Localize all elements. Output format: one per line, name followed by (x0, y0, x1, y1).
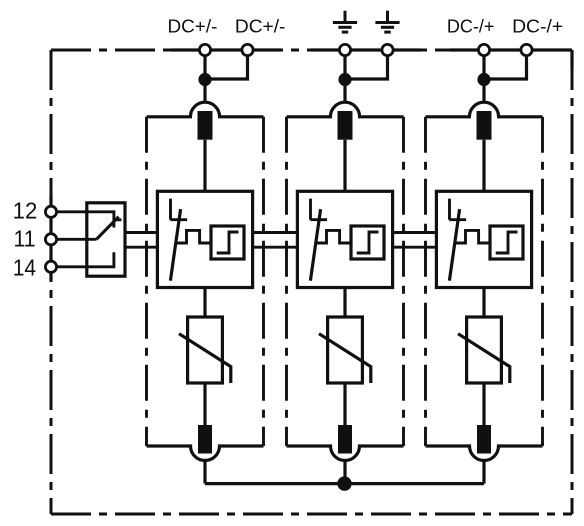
varistor MOV module 1 body (188, 317, 223, 383)
wire lower link module 1 to module 2 (253, 246, 298, 249)
wire upper link contact box to module 1 (125, 231, 157, 234)
thermal disconnector module 3 bottom (black) (477, 425, 491, 454)
wire pulse link blade to trigger box module 2 (316, 230, 351, 243)
terminal circle module 2 right (382, 44, 393, 55)
svg-text:12: 12 (13, 197, 38, 224)
wire solid top-edge segment at DC-/+ terminals (450, 48, 572, 51)
SPD monitoring box module 3 (436, 191, 531, 287)
wire module 3 drop to bottom bus (482, 461, 485, 484)
node junction dot module 1 top (198, 73, 211, 86)
wire terminal 11 to changeover blade (51, 238, 96, 241)
wire right terminal drop module 1 (205, 50, 248, 79)
wire lower link contact box to module 1 (125, 246, 157, 249)
varistor diagonal stroke module 1 (179, 334, 231, 383)
enclosure dash-dot frame top edge (51, 49, 572, 52)
hysteresis step symbol module 3 (496, 232, 518, 253)
wire bottom bus (205, 482, 484, 485)
wire module 3 top rail with arc bump (426, 102, 543, 117)
enclosure dash-dot frame bottom edge (51, 513, 572, 516)
wire upper link module 1 to module 2 (253, 231, 298, 234)
wire SPD box to varistor module 3 (482, 288, 485, 318)
wire left terminal drop module 1 (203, 50, 206, 103)
terminal circle module 1 left (199, 44, 210, 55)
module 1 right dash-dot boundary (262, 117, 265, 446)
module 2 left dash-dot boundary (285, 117, 288, 446)
wire solid top-edge segment at DC+/- terminals (171, 48, 281, 51)
svg-text:DC-/+: DC-/+ (447, 15, 495, 36)
remote signalling contact box (87, 203, 125, 276)
wire disconnector to SPD box module 2 (343, 140, 346, 192)
terminal circle module 3 right (521, 44, 532, 55)
hysteresis step symbol module 1 (217, 232, 239, 253)
wire SPD box to varistor module 1 (203, 288, 206, 318)
ground symbol 2 (375, 11, 399, 32)
switch blade module 3 (449, 209, 459, 281)
node junction dot module 3 top (477, 73, 490, 86)
svg-text:DC+/-: DC+/- (235, 17, 286, 38)
wire solid left-edge segment at terminals 12 11 14 (49, 197, 52, 281)
wire solid top-edge segment at earth terminals (311, 48, 421, 51)
wire varistor to bottom disconnector module 2 (343, 383, 346, 425)
wire left terminal drop module 2 (343, 50, 346, 103)
wire varistor to bottom disconnector module 3 (482, 383, 485, 425)
wire varistor to bottom disconnector module 1 (203, 383, 206, 425)
wire right terminal drop module 3 (484, 50, 527, 79)
wire module 1 bottom rail with arc bump (147, 446, 264, 461)
trigger box module 3 (490, 226, 523, 259)
wire right terminal drop module 2 (345, 50, 388, 79)
wire pulse link blade to trigger box module 1 (176, 230, 211, 243)
enclosure dash-dot frame right edge (571, 50, 574, 514)
thermal disconnector module 2 bottom (black) (338, 425, 352, 454)
thermal disconnector module 1 bottom (black) (198, 425, 212, 454)
node junction dot bottom bus (337, 476, 351, 490)
node junction dot module 2 top (338, 73, 351, 86)
terminal circle 11 (45, 234, 56, 245)
switch blade module 1 (170, 209, 180, 281)
wire module 2 drop to bottom bus (343, 461, 346, 484)
wire module 2 bottom rail with arc bump (287, 446, 404, 461)
wire module 3 bottom rail with arc bump (426, 446, 543, 461)
switch fixed contact module 3 (449, 199, 466, 220)
wire module 2 top rail with arc bump (287, 102, 404, 117)
wire terminal 12 to changeover contact (51, 212, 114, 228)
switch fixed contact module 2 (310, 199, 327, 220)
terminal circle 14 (45, 261, 56, 272)
wire disconnector to SPD box module 1 (203, 140, 206, 192)
SPD monitoring box module 1 (157, 191, 252, 287)
wire solid right-edge segment below top corner (570, 50, 573, 68)
wire SPD box to varistor module 2 (343, 288, 346, 318)
wire module 1 top rail with arc bump (147, 102, 264, 117)
svg-text:14: 14 (13, 255, 36, 281)
switch blade module 2 (310, 209, 320, 281)
terminal circle module 3 left (478, 44, 489, 55)
wire module 1 drop to bottom bus (203, 461, 206, 484)
thermal disconnector module 2 top (black) (338, 111, 353, 140)
wire pulse link blade to trigger box module 3 (455, 230, 490, 243)
varistor MOV module 2 body (328, 317, 363, 383)
wire upper link module 2 to module 3 (393, 231, 437, 234)
svg-text:DC-/+: DC-/+ (512, 17, 563, 38)
module 3 left dash-dot boundary (424, 117, 427, 446)
changeover switch blade (96, 217, 118, 240)
wire disconnector to SPD box module 3 (482, 140, 485, 192)
thermal disconnector module 1 top (black) (198, 111, 213, 140)
terminal circle 12 (45, 206, 56, 217)
wire terminal 14 to changeover contact (51, 252, 114, 267)
ground symbol 1 (333, 11, 357, 32)
enclosure dash-dot frame left edge (50, 50, 53, 514)
switch fixed contact module 1 (170, 199, 187, 220)
varistor diagonal stroke module 2 (319, 334, 371, 383)
terminal circle module 1 right (242, 44, 253, 55)
module 3 right dash-dot boundary (541, 117, 544, 446)
changeover switch contact tick (113, 218, 122, 221)
trigger box module 1 (211, 226, 244, 259)
wire left terminal drop module 3 (482, 50, 485, 103)
varistor MOV module 3 body (467, 317, 502, 383)
svg-text:DC+/-: DC+/- (168, 17, 218, 38)
svg-text:11: 11 (14, 226, 36, 252)
terminal circle module 2 left (339, 44, 350, 55)
thermal disconnector module 3 top (black) (477, 111, 492, 140)
hysteresis step symbol module 2 (357, 232, 379, 253)
trigger box module 2 (351, 226, 384, 259)
varistor diagonal stroke module 3 (458, 334, 510, 383)
SPD monitoring box module 2 (297, 191, 392, 287)
module 2 right dash-dot boundary (402, 117, 405, 446)
wire lower link module 2 to module 3 (393, 246, 437, 249)
module 1 left dash-dot boundary (145, 117, 148, 446)
